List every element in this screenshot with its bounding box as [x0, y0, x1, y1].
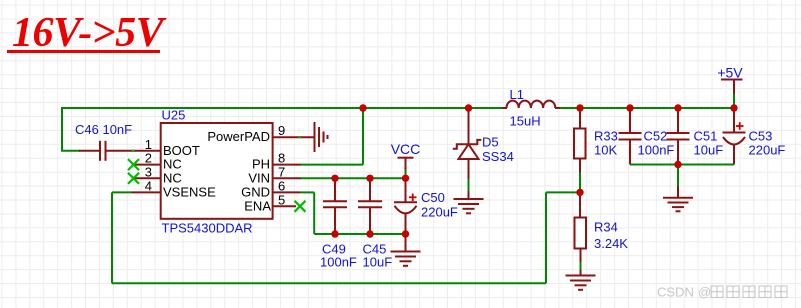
capacitor C50 (polarized): [394, 178, 417, 234]
pin number 7: [278, 164, 285, 179]
svg-text:100nF: 100nF: [320, 255, 357, 270]
svg-text:3: 3: [145, 164, 152, 179]
junction output ground rail: [674, 161, 681, 168]
no-connect X pin 5 ENA: [295, 201, 306, 212]
junction C50/VIN: [402, 175, 409, 182]
wire VCC stem lower segment: [405, 170, 407, 178]
svg-text:PowerPAD: PowerPAD: [207, 129, 270, 144]
svg-text:5: 5: [278, 192, 285, 207]
pin number 4: [145, 178, 152, 193]
pin name PowerPAD: [207, 129, 270, 144]
pin 3 stub: [133, 177, 161, 179]
pin 8 stub: [273, 164, 301, 166]
svg-text:L1: L1: [510, 87, 524, 102]
pin name ENA: [244, 198, 271, 213]
label 100nF of C49: [320, 255, 357, 270]
label 100nF of C52: [638, 142, 675, 157]
svg-text:10K: 10K: [594, 143, 617, 158]
junction C45/bottom: [366, 230, 373, 237]
wire R33 top segment: [579, 108, 581, 116]
resistor R34: [575, 192, 587, 275]
svg-text:220uF: 220uF: [749, 142, 786, 157]
wire +5V stem lower segment: [733, 93, 735, 108]
svg-text:C46 10nF: C46 10nF: [75, 122, 132, 137]
wire VIN rail: [300, 177, 406, 179]
svg-text:VSENSE: VSENSE: [163, 184, 216, 199]
svg-text:R33: R33: [594, 128, 618, 143]
pin 7 stub: [273, 177, 301, 179]
wire feedback right vertical: [545, 192, 547, 283]
plus sign of C50: [409, 194, 417, 202]
svg-text:C53: C53: [749, 128, 773, 143]
svg-text:CSDN: CSDN: [657, 285, 694, 300]
pin number 9: [278, 123, 285, 138]
ground under C51 rail: [663, 186, 693, 211]
pin number 8: [278, 151, 285, 166]
label C50: [421, 190, 445, 205]
label C45: [363, 242, 387, 257]
junction C51/top: [674, 104, 681, 111]
wire left loop to C46: [61, 150, 80, 152]
pin name PH: [252, 157, 270, 172]
label R34: [594, 220, 618, 235]
junction C45/VIN: [366, 175, 373, 182]
svg-text:GND: GND: [241, 184, 270, 199]
label 10K: [594, 143, 617, 158]
pin name GND: [241, 184, 270, 199]
svg-text:3.24K: 3.24K: [594, 236, 628, 251]
wire feedback bottom horizontal: [112, 282, 546, 284]
no-connect X pin 2: [128, 159, 139, 170]
junction PH/top: [359, 104, 366, 111]
label C49: [322, 242, 346, 257]
junction C52/top: [626, 104, 633, 111]
svg-text:R34: R34: [594, 220, 618, 235]
svg-text:BOOT: BOOT: [163, 143, 200, 158]
svg-text:+5V: +5V: [717, 65, 743, 81]
watermark at-sign: [698, 285, 711, 300]
svg-text:U25: U25: [162, 108, 186, 123]
svg-text:10uF: 10uF: [363, 255, 393, 270]
svg-text:220uF: 220uF: [421, 205, 458, 220]
junction divider node: [576, 189, 583, 196]
pin 5 stub: [273, 205, 296, 207]
wire top rail left of L1: [62, 107, 503, 109]
net label +5V: [717, 65, 743, 81]
power port +5V symbol: [721, 80, 743, 95]
svg-text:SS34: SS34: [482, 149, 514, 164]
junction C49/bottom: [331, 230, 338, 237]
wire D5 anode segment: [468, 178, 470, 192]
pin hot end dot pin1: [132, 150, 134, 152]
ground under C50: [391, 234, 421, 266]
svg-text:4: 4: [145, 178, 152, 193]
capacitor C52: [619, 108, 642, 165]
resistor R33: [574, 112, 586, 172]
svg-text:100nF: 100nF: [638, 142, 675, 157]
pin 6 stub: [273, 191, 301, 193]
svg-text:7: 7: [278, 164, 285, 179]
net label VCC: [391, 141, 421, 157]
label 10uF of C45: [363, 255, 393, 270]
label 15uH: [510, 114, 541, 129]
designator U25: [162, 108, 186, 123]
svg-text:10uF: 10uF: [694, 142, 724, 157]
diode D5 (schottky): [453, 108, 482, 199]
ground under D5: [454, 199, 484, 213]
label L1: [510, 87, 524, 102]
svg-text:VIN: VIN: [248, 170, 270, 185]
svg-text:VCC: VCC: [391, 141, 421, 157]
wire GND corner down: [313, 192, 315, 234]
svg-text:1: 1: [145, 137, 152, 152]
label D5: [482, 135, 499, 150]
wire VSENSE stub link: [112, 191, 132, 193]
pin 2 stub: [133, 164, 161, 166]
capacitor C49: [323, 178, 347, 234]
svg-text:TPS5430DDAR: TPS5430DDAR: [162, 221, 253, 236]
wire left loop vertical: [61, 107, 63, 151]
capacitor C51: [667, 108, 690, 165]
svg-text:9: 9: [278, 123, 285, 138]
svg-text:C52: C52: [644, 128, 668, 143]
ground under R34: [566, 276, 596, 290]
capacitor C53 (polarized): [723, 108, 746, 165]
svg-text:@: @: [698, 285, 711, 300]
pin name NC 2: [163, 157, 182, 172]
junction R33/top: [576, 104, 583, 111]
capacitor C45: [358, 178, 382, 234]
svg-text:ENA: ENA: [244, 198, 271, 213]
op-amp U25 chip body: [161, 123, 273, 219]
junction D5/top: [465, 104, 472, 111]
wire PH vertical: [362, 108, 364, 165]
ground PowerPAD (rotated earth): [315, 122, 328, 152]
title 16V->5V: [12, 9, 163, 57]
pin number 3: [145, 164, 152, 179]
power port VCC symbol: [398, 158, 414, 170]
label 3.24K: [594, 236, 628, 251]
label C52: [644, 128, 668, 143]
pin name BOOT: [163, 143, 200, 158]
svg-text:C50: C50: [421, 190, 445, 205]
pin hot end dot pin9: [298, 136, 300, 138]
label 10uF of C51: [694, 142, 724, 157]
junction C50/bottom: [402, 230, 409, 237]
svg-text:6: 6: [278, 178, 285, 193]
svg-text:C51: C51: [694, 128, 718, 143]
pin number 1: [145, 137, 152, 152]
pin name VSENSE: [163, 184, 216, 199]
label C46 10nF: [75, 122, 132, 137]
wire GND pin to corner: [301, 191, 315, 193]
svg-text:15uH: 15uH: [510, 114, 541, 129]
wire R33 bottom segment: [579, 171, 581, 192]
wire feedback to divider node: [546, 191, 580, 193]
pin name VIN: [248, 170, 270, 185]
junction C49/VIN: [331, 175, 338, 182]
wire R34 bottom segment: [580, 261, 582, 271]
pin number 6: [278, 178, 285, 193]
label SS34: [482, 149, 514, 164]
wire output cap ground rail: [630, 164, 734, 166]
svg-text:D5: D5: [482, 135, 499, 150]
watermark CJK glyph blocks: [711, 286, 787, 298]
label R33: [594, 128, 618, 143]
inductor L1: [502, 101, 560, 108]
wire top rail right of L1: [559, 107, 734, 109]
plus sign of C53: [736, 122, 744, 130]
label 220uF of C50: [421, 205, 458, 220]
label C53: [749, 128, 773, 143]
svg-text:NC: NC: [163, 170, 182, 185]
wire bottom cap rail: [314, 233, 405, 235]
capacitor C46: [79, 141, 161, 161]
pin number 5: [278, 192, 285, 207]
pin number 2: [145, 151, 152, 166]
wire C51 rail to ground segment: [677, 165, 679, 189]
label C51: [694, 128, 718, 143]
wire feedback left vertical: [111, 192, 113, 283]
pin name NC 3: [163, 170, 182, 185]
junction C53/+5V: [730, 104, 737, 111]
pin 9 stub: [273, 136, 315, 138]
wire PH horizontal: [300, 164, 363, 166]
value TPS5430DDAR: [162, 221, 253, 236]
pin 4 stub: [132, 191, 161, 193]
no-connect X pin 3: [128, 173, 139, 184]
watermark CSDN text: [657, 285, 694, 300]
label 220uF of C53: [749, 142, 786, 157]
title underline: [7, 50, 160, 53]
